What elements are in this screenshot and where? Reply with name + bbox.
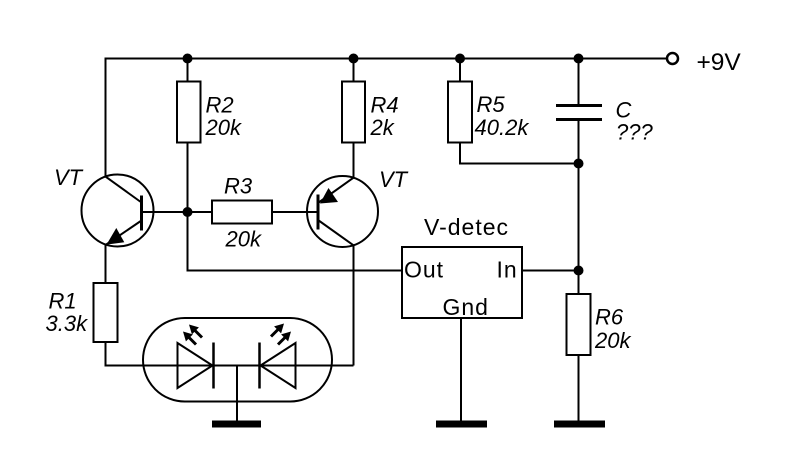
node rail/R5	[455, 54, 465, 64]
svg-text:+9V: +9V	[697, 49, 742, 76]
wire R5 bottom to node	[460, 143, 579, 164]
LED D1	[178, 343, 214, 389]
wire VT1 base to node	[142, 211, 188, 213]
terminal +9V	[667, 53, 678, 64]
node rail/R2	[183, 54, 193, 64]
wire VT2 collector down	[353, 245, 355, 366]
wire R5 top	[459, 59, 461, 82]
resistor R2	[177, 82, 201, 143]
node rail/C	[574, 54, 584, 64]
wire R3 to VT2 base	[272, 211, 318, 213]
svg-text:20k: 20k	[594, 328, 631, 353]
transistor VT1	[82, 175, 154, 247]
ground LED	[212, 421, 261, 428]
wire LED center tap	[236, 366, 238, 422]
resistor R5	[448, 82, 472, 143]
D2 emission arrows	[271, 324, 291, 345]
node In	[574, 266, 584, 276]
wire R4 to VT2 emitter	[353, 143, 355, 179]
resistor R4	[342, 82, 365, 143]
svg-text:40.2k: 40.2k	[475, 115, 530, 140]
svg-text:VT: VT	[54, 165, 84, 190]
wire C bottom	[578, 121, 580, 271]
svg-text:R3: R3	[224, 174, 253, 199]
LED D2	[260, 343, 296, 389]
svg-text:20k: 20k	[225, 227, 262, 252]
node base junction	[183, 207, 193, 217]
node R5/C	[574, 159, 584, 169]
wire R6 bottom	[578, 355, 580, 421]
wire node to R3	[188, 211, 213, 213]
LED module outline	[143, 318, 332, 402]
resistor R1	[94, 283, 118, 342]
ground V-detec	[436, 421, 487, 428]
wire R2 bottom	[187, 143, 189, 213]
D1 emission arrows	[183, 325, 202, 345]
svg-text:Gnd: Gnd	[443, 294, 489, 320]
svg-text:3.3k: 3.3k	[46, 311, 89, 336]
svg-text:???: ???	[616, 120, 653, 145]
svg-text:R4: R4	[371, 93, 399, 118]
wire R1 to LED bus	[106, 342, 354, 366]
svg-text:2k: 2k	[370, 115, 395, 140]
wire node to V-detec Out	[188, 212, 403, 271]
wire VT1 emitter to R1	[105, 244, 107, 283]
wire In node to R6	[578, 271, 580, 295]
svg-text:R2: R2	[206, 93, 234, 118]
svg-text:V-detec: V-detec	[424, 214, 509, 240]
resistor R3	[212, 201, 272, 224]
ground R6	[554, 421, 605, 428]
wire top rail +9V	[106, 59, 667, 177]
svg-text:20k: 20k	[205, 115, 242, 140]
wire V-detec Gnd	[460, 318, 462, 421]
svg-text:VT: VT	[379, 167, 409, 192]
svg-text:In: In	[497, 257, 518, 283]
node rail/R4	[349, 54, 359, 64]
wire R4 top	[353, 59, 355, 82]
wire In pin	[522, 270, 579, 272]
resistor R6	[567, 294, 591, 355]
wire R2 top	[187, 59, 189, 82]
block V-detec	[402, 247, 522, 318]
svg-text:R1: R1	[49, 289, 77, 314]
wire C top	[578, 59, 580, 105]
transistor VT2	[307, 176, 378, 247]
svg-text:Out: Out	[404, 257, 444, 283]
svg-text:R5: R5	[477, 92, 506, 117]
svg-text:R6: R6	[595, 305, 624, 330]
capacitor C	[556, 106, 602, 120]
